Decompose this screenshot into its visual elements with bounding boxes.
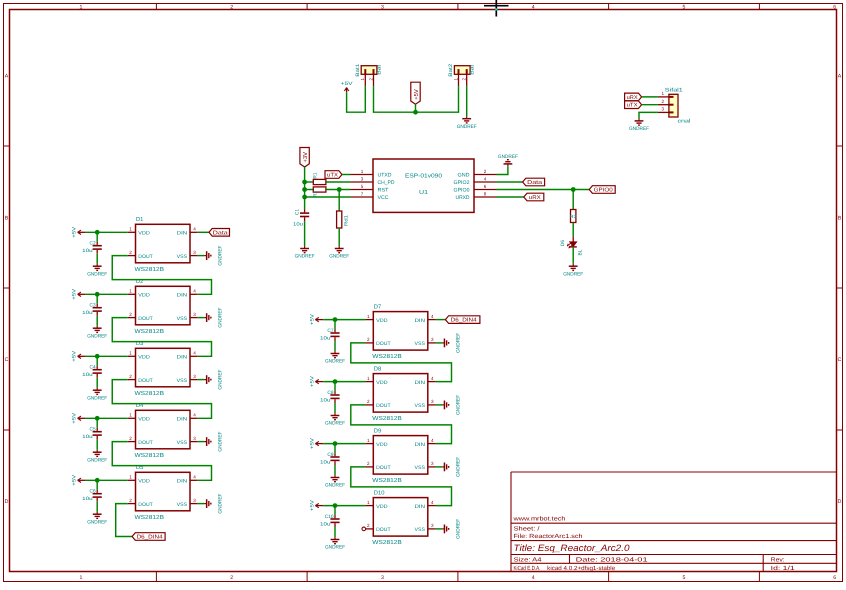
svg-text:10u: 10u	[82, 496, 93, 502]
wire D7 VSS to ground	[436, 342, 443, 344]
D3 pin 4 DIN	[190, 355, 198, 357]
wire D7 DOUT to D8 DIN	[351, 343, 452, 382]
junction +5V/C8	[333, 379, 338, 384]
svg-text:3: 3	[662, 107, 665, 112]
svg-text:2: 2	[484, 169, 487, 174]
svg-text:3: 3	[431, 337, 434, 342]
D1 pin 3 VSS	[190, 255, 198, 257]
wire D4 DOUT to D5 DIN	[112, 442, 211, 481]
D2 pin 4 DIN	[190, 293, 198, 295]
svg-text:D9: D9	[374, 427, 381, 434]
capacitor C3	[96, 294, 98, 304]
svg-text:WS2812B: WS2812B	[135, 328, 165, 335]
ground GNDREF (under Sifal1)	[638, 119, 640, 121]
svg-text:1: 1	[361, 169, 364, 174]
D10 pin 4 DIN	[428, 505, 436, 507]
svg-text:Date: 2018-04-01: Date: 2018-04-01	[576, 557, 649, 564]
battery connector Bat1	[361, 66, 377, 75]
svg-text:1: 1	[129, 351, 132, 356]
ground GNDREF (under C10)	[334, 537, 336, 539]
svg-text:VDD: VDD	[138, 355, 150, 361]
svg-text:VDD: VDD	[138, 417, 150, 423]
svg-text:+5V: +5V	[309, 499, 315, 511]
svg-text:4: 4	[431, 314, 434, 319]
svg-text:2: 2	[368, 77, 373, 80]
svg-text:GNDREF: GNDREF	[87, 271, 107, 277]
svg-text:C1: C1	[294, 209, 300, 215]
svg-text:10u: 10u	[82, 310, 93, 316]
svg-text:UTXD: UTXD	[378, 173, 392, 179]
svg-text:B: B	[838, 216, 842, 222]
junction +5V/C6	[95, 478, 100, 483]
LED driver D2 WS2812B	[136, 286, 191, 325]
capacitor C4	[96, 356, 98, 366]
wire +5V to D3 VDD	[85, 355, 127, 357]
svg-text:Bat: Bat	[470, 64, 476, 75]
LED driver D10 WS2812B	[373, 498, 428, 536]
svg-text:4: 4	[193, 227, 196, 232]
D9 pin 3 VSS	[428, 466, 436, 468]
D4 pin 1 VDD	[128, 417, 136, 419]
svg-text:3: 3	[361, 176, 364, 181]
svg-text:WS2812B: WS2812B	[372, 415, 402, 422]
svg-text:1: 1	[453, 77, 458, 80]
global label D6_DIN4 (from D5)	[132, 533, 165, 541]
svg-text:2: 2	[129, 250, 132, 255]
svg-text:GNDREF: GNDREF	[456, 519, 462, 539]
svg-text:WS2812B: WS2812B	[372, 539, 402, 546]
svg-text:D10: D10	[374, 489, 385, 496]
svg-text:KiCad E.D.A.: KiCad E.D.A.	[514, 565, 541, 572]
svg-text:2: 2	[367, 399, 370, 404]
svg-text:VSS: VSS	[177, 440, 188, 446]
svg-text:DIN: DIN	[415, 318, 426, 324]
svg-text:6: 6	[484, 184, 487, 189]
svg-text:uTX: uTX	[627, 103, 638, 109]
svg-text:1: 1	[80, 4, 83, 10]
D8 pin 3 VSS	[428, 404, 436, 406]
ground GNDREF (right of D10)	[442, 528, 444, 530]
ground GNDREF (right of D7)	[442, 342, 444, 344]
svg-text:4: 4	[532, 575, 535, 581]
svg-text:2: 2	[367, 337, 370, 342]
junction RST/Rd1	[337, 187, 342, 192]
junction +3V/VCC	[302, 195, 307, 200]
power symbol +5V (at D1)	[78, 231, 86, 233]
wire Bat1 pin 2 to Bat2 pin 1	[374, 86, 459, 112]
svg-text:Rev:: Rev:	[771, 557, 785, 564]
D2 pin 3 VSS	[190, 317, 198, 319]
svg-text:R2: R2	[313, 191, 319, 197]
svg-text:8: 8	[484, 191, 487, 196]
svg-text:ESP-01v090: ESP-01v090	[405, 173, 442, 180]
svg-text:GNDREF: GNDREF	[295, 254, 315, 260]
wire D6 to ground	[572, 247, 574, 264]
svg-text:4: 4	[431, 438, 434, 443]
D2 pin 2 DOUT	[128, 317, 136, 319]
svg-text:DOUT: DOUT	[376, 527, 391, 533]
connector Sifal1 (3-pin)	[669, 94, 678, 117]
svg-text:1: 1	[129, 227, 132, 232]
svg-text:4: 4	[532, 4, 535, 10]
ground GNDREF (under C6)	[96, 512, 98, 514]
power symbol +5V (at D2)	[78, 293, 86, 295]
svg-text:GNDREF: GNDREF	[218, 432, 224, 452]
svg-text:uTX: uTX	[327, 173, 338, 179]
wire VCC branch	[305, 196, 351, 198]
svg-text:10u: 10u	[82, 434, 93, 440]
capacitor C6	[96, 480, 98, 490]
global label uTX (at Sifal1)	[625, 101, 642, 109]
svg-text:10u: 10u	[82, 372, 93, 378]
D7 pin 2 DOUT	[366, 342, 374, 344]
capacitor C7	[334, 320, 336, 330]
svg-text:2: 2	[230, 575, 233, 581]
wire Bat2 pin 2 to ground	[466, 86, 468, 116]
svg-text:3: 3	[381, 4, 384, 10]
svg-text:D6_DIN4: D6_DIN4	[451, 318, 477, 324]
global label uRX (at Sifal1)	[625, 93, 642, 101]
svg-text:3: 3	[431, 461, 434, 466]
svg-text:4: 4	[193, 289, 196, 294]
svg-text:+5V: +5V	[72, 288, 78, 300]
power symbol +5V (at D4)	[78, 417, 86, 419]
power flag label +5V (vertical global label)	[411, 82, 420, 104]
power symbol +5V (at D7)	[315, 319, 323, 321]
wire C7 to ground	[334, 341, 336, 351]
wire D8 DOUT to D9 DIN	[351, 405, 452, 444]
ground GNDREF (under Bat2)	[466, 116, 468, 118]
ground GNDREF (above, at U1 GND)	[507, 164, 509, 166]
svg-text:GNDREF: GNDREF	[456, 457, 462, 477]
svg-text:WS2812B: WS2812B	[372, 477, 402, 484]
svg-text:DOUT: DOUT	[138, 378, 153, 384]
svg-text:Sifal1: Sifal1	[665, 88, 683, 94]
svg-text:A: A	[838, 74, 842, 80]
svg-text:Rd1: Rd1	[344, 215, 350, 226]
svg-text:Data: Data	[213, 230, 229, 236]
svg-text:DOUT: DOUT	[376, 403, 391, 409]
D8 pin 4 DIN	[428, 381, 436, 383]
D7 pin 1 VDD	[366, 319, 374, 321]
svg-text:VDD: VDD	[376, 318, 388, 324]
editor crosshair cursor	[495, 0, 497, 17]
wire C5 to ground	[96, 440, 98, 450]
svg-text:D8: D8	[374, 365, 381, 372]
svg-text:A: A	[5, 74, 9, 80]
svg-text:1: 1	[367, 438, 370, 443]
wire +5V to D4 VDD	[85, 417, 127, 419]
svg-text:DIN: DIN	[177, 479, 188, 485]
svg-text:D: D	[5, 499, 9, 505]
resistor Rd1	[338, 190, 340, 212]
svg-text:6: 6	[833, 575, 836, 581]
svg-text:WS2812B: WS2812B	[135, 266, 165, 273]
svg-text:5: 5	[683, 575, 686, 581]
capacitor C8	[334, 382, 336, 392]
wire C2 to ground	[96, 254, 98, 264]
svg-text:3: 3	[193, 312, 196, 317]
junction at +5V flag	[413, 110, 418, 115]
wire +5V to D9 VDD	[323, 443, 365, 445]
ground GNDREF (under C3)	[96, 326, 98, 328]
svg-text:Bat: Bat	[377, 64, 383, 75]
svg-text:D6_DIN4: D6_DIN4	[137, 535, 163, 541]
D5 pin 4 DIN	[190, 479, 198, 481]
svg-text:DIN: DIN	[177, 293, 188, 299]
svg-text:10u: 10u	[320, 397, 331, 403]
junction +5V/C9	[333, 441, 338, 446]
svg-text:3: 3	[193, 374, 196, 379]
svg-text:2: 2	[129, 374, 132, 379]
ground GNDREF (under C2)	[96, 264, 98, 266]
svg-text:U1: U1	[419, 190, 428, 196]
wire D1 DOUT to D2 DIN	[112, 256, 211, 295]
svg-text:4: 4	[484, 176, 487, 181]
svg-text:VDD: VDD	[376, 380, 388, 386]
svg-text:1: 1	[367, 314, 370, 319]
D1 pin 1 VDD	[128, 231, 136, 233]
D2 pin 1 VDD	[128, 293, 136, 295]
wire R2 to RST	[326, 189, 351, 191]
svg-text:B: B	[5, 216, 9, 222]
svg-text:VDD: VDD	[376, 504, 388, 510]
svg-text:R1: R1	[313, 172, 319, 178]
svg-text:GNDREF: GNDREF	[325, 545, 345, 551]
ground GNDREF (right of D1)	[204, 255, 206, 257]
D9 pin 1 VDD	[366, 443, 374, 445]
svg-text:D7: D7	[374, 304, 381, 310]
LED driver D5 WS2812B	[136, 472, 191, 511]
U1 pin 6 GPIO0	[474, 189, 497, 191]
svg-text:VSS: VSS	[177, 502, 188, 508]
svg-text:3: 3	[431, 523, 434, 528]
global label D6_DIN4 (at D7 DIN)	[436, 319, 446, 321]
wire +3V to R1	[305, 181, 314, 183]
svg-text:Title: Esq_Reactor_Arc2.0: Title: Esq_Reactor_Arc2.0	[514, 543, 631, 553]
D8 pin 2 DOUT	[366, 404, 374, 406]
wire C9 to ground	[334, 465, 336, 475]
wire +5V to Bat1 pin 1	[347, 86, 366, 112]
wire +5V to D7 VDD	[323, 319, 365, 321]
junction +5V/C2	[95, 230, 100, 235]
svg-text:CH_PD: CH_PD	[378, 180, 395, 186]
svg-text:10u: 10u	[320, 459, 331, 465]
svg-text:DOUT: DOUT	[138, 502, 153, 508]
svg-text:7: 7	[361, 191, 364, 196]
U1 pin 3 CH_PD	[351, 181, 374, 183]
D5 pin 3 VSS	[190, 503, 198, 505]
D3 pin 1 VDD	[128, 355, 136, 357]
svg-text:C: C	[5, 357, 9, 363]
wire Sifal1 pin 3 to ground	[639, 112, 658, 118]
svg-text:DIN: DIN	[415, 442, 426, 448]
svg-text:GNDREF: GNDREF	[456, 333, 462, 353]
ground GNDREF (under C1)	[304, 246, 306, 248]
svg-text:URXD: URXD	[456, 195, 470, 201]
wire +3V to R2	[305, 189, 314, 191]
svg-text:Size: A4: Size: A4	[514, 557, 543, 564]
wire URXD to uRX	[497, 196, 524, 198]
svg-text:WS2812B: WS2812B	[372, 353, 402, 360]
svg-text:WS2812B: WS2812B	[135, 390, 165, 397]
svg-text:5: 5	[361, 184, 364, 189]
svg-text:VSS: VSS	[415, 527, 426, 533]
power flag label +3V (vertical global label)	[300, 148, 309, 168]
open pin circle at D10 DOUT	[362, 527, 366, 531]
wire +3V rail down to VCC and C1	[304, 167, 306, 209]
svg-text:6: 6	[833, 4, 836, 10]
svg-text:DIN: DIN	[177, 417, 188, 423]
junction +5V/C7	[333, 317, 338, 322]
svg-text:VSS: VSS	[415, 465, 426, 471]
wire D4 VSS to ground	[198, 441, 205, 443]
wire uRX to Sifal1 pin 1	[642, 96, 658, 98]
svg-text:GNDREF: GNDREF	[498, 154, 518, 160]
LED driver D4 WS2812B	[136, 410, 191, 449]
capacitor C9	[334, 444, 336, 454]
svg-text:GPIO2: GPIO2	[454, 180, 470, 186]
svg-text:cnal: cnal	[678, 118, 691, 124]
LED driver D3 WS2812B	[136, 348, 191, 387]
svg-text:5: 5	[683, 4, 686, 10]
svg-text:+5V: +5V	[309, 437, 315, 449]
svg-text:BL: BL	[578, 249, 584, 255]
wire uTX to U1 pin 1	[342, 174, 351, 176]
wire D8 VSS to ground	[436, 404, 443, 406]
wire +5V flag to bus	[415, 104, 417, 112]
wire C6 to ground	[96, 502, 98, 512]
svg-text:4: 4	[193, 351, 196, 356]
svg-text:3: 3	[193, 436, 196, 441]
svg-text:D1: D1	[136, 217, 143, 223]
svg-text:2: 2	[230, 4, 233, 10]
op-amp U1 ESP-01 module body	[373, 159, 474, 212]
svg-text:VSS: VSS	[177, 378, 188, 384]
svg-text:3: 3	[193, 498, 196, 503]
D9 pin 4 DIN	[428, 443, 436, 445]
power symbol +5V (at D8)	[315, 381, 323, 383]
svg-text:3: 3	[193, 250, 196, 255]
svg-text:VSS: VSS	[415, 341, 426, 347]
wire +5V to D1 VDD	[85, 231, 127, 233]
svg-text:10u: 10u	[82, 248, 93, 254]
svg-text:VSS: VSS	[177, 254, 188, 260]
svg-text:GNDREF: GNDREF	[629, 126, 649, 132]
wire D9 DOUT to D10 DIN	[351, 467, 452, 506]
svg-text:Data: Data	[527, 180, 543, 186]
U1 pin 4 GPIO2	[474, 181, 497, 183]
wire D9 VSS to ground	[436, 466, 443, 468]
ground GNDREF (under C9)	[334, 475, 336, 477]
svg-text:GNDREF: GNDREF	[329, 254, 349, 260]
svg-text:+3V: +3V	[302, 152, 309, 163]
ground GNDREF (right of D4)	[204, 441, 206, 443]
svg-text:2: 2	[129, 312, 132, 317]
svg-text:WS2812B: WS2812B	[135, 452, 165, 459]
ground GNDREF (under D6)	[572, 264, 574, 266]
svg-text:GNDREF: GNDREF	[218, 370, 224, 390]
svg-text:2: 2	[367, 523, 370, 528]
svg-text:+5V: +5V	[72, 412, 78, 424]
svg-text:Bat1: Bat1	[355, 63, 361, 76]
wire D2 DOUT to D3 DIN	[112, 318, 211, 357]
wire C8 to ground	[334, 403, 336, 413]
svg-text:DOUT: DOUT	[138, 440, 153, 446]
svg-text:Sheet: /: Sheet: /	[514, 525, 540, 532]
svg-text:DOUT: DOUT	[376, 341, 391, 347]
wire +5V to D5 VDD	[85, 479, 127, 481]
svg-text:VDD: VDD	[138, 231, 150, 237]
power symbol +5V (at D5)	[78, 479, 86, 481]
power symbol +5V (at D3)	[78, 355, 86, 357]
svg-text:+5V: +5V	[309, 375, 315, 387]
LED driver D9 WS2812B	[373, 436, 428, 475]
D1 pin 4 DIN	[190, 231, 198, 233]
svg-text:D6: D6	[560, 240, 566, 246]
ground GNDREF (right of D5)	[204, 503, 206, 505]
wire D5 VSS to ground	[198, 503, 205, 505]
U1 pin 8 URXD	[474, 196, 497, 198]
U1 pin 2 GND	[474, 174, 497, 176]
svg-text:GNDREF: GNDREF	[325, 483, 345, 489]
D8 pin 1 VDD	[366, 381, 374, 383]
ground GNDREF (under C8)	[334, 413, 336, 415]
wire C3 to ground	[96, 316, 98, 326]
svg-text:DIN: DIN	[415, 504, 426, 510]
ground GNDREF (right of D8)	[442, 404, 444, 406]
wire GPIO0	[497, 189, 590, 191]
svg-text:GPIO0: GPIO0	[594, 188, 613, 194]
svg-text:www.mrbot.tech: www.mrbot.tech	[512, 516, 565, 523]
svg-text:GNDREF: GNDREF	[87, 395, 107, 401]
svg-text:GPIO0: GPIO0	[454, 188, 470, 194]
D4 pin 3 VSS	[190, 441, 198, 443]
power symbol +5V (battery left)	[346, 88, 348, 93]
wire GPIO2 to Data	[497, 181, 523, 183]
LED driver D1 WS2812B	[136, 224, 191, 262]
junction +3V/CH_PD	[302, 180, 307, 185]
wire D1 VSS to ground	[198, 255, 205, 257]
D5 pin 1 VDD	[128, 479, 136, 481]
svg-text:1: 1	[129, 289, 132, 294]
svg-text:kicad 4.0.2+dfsg1-stable: kicad 4.0.2+dfsg1-stable	[547, 565, 616, 572]
svg-text:2: 2	[129, 498, 132, 503]
D7 pin 4 DIN	[428, 319, 436, 321]
svg-text:VSS: VSS	[415, 403, 426, 409]
svg-text:GNDREF: GNDREF	[563, 271, 583, 277]
junction GPIO0/R3	[571, 187, 576, 192]
LED driver D8 WS2812B	[373, 374, 428, 413]
wire D5 DOUT to D6_DIN4 label	[116, 504, 132, 537]
svg-text:WS2812B: WS2812B	[135, 514, 165, 521]
svg-text:VDD: VDD	[138, 293, 150, 299]
svg-text:Bat2: Bat2	[448, 63, 454, 76]
svg-text:10u: 10u	[320, 521, 331, 527]
svg-text:1: 1	[367, 500, 370, 505]
junction +3V/RST	[302, 187, 307, 192]
svg-text:2: 2	[129, 436, 132, 441]
svg-text:1: 1	[129, 413, 132, 418]
wire D3 VSS to ground	[198, 379, 205, 381]
svg-text:VDD: VDD	[376, 442, 388, 448]
svg-text:DOUT: DOUT	[138, 316, 153, 322]
svg-text:4: 4	[431, 500, 434, 505]
svg-text:DIN: DIN	[177, 231, 188, 237]
svg-text:DOUT: DOUT	[376, 465, 391, 471]
svg-text:4: 4	[193, 413, 196, 418]
global label Data (at D1 DIN)	[198, 231, 209, 233]
